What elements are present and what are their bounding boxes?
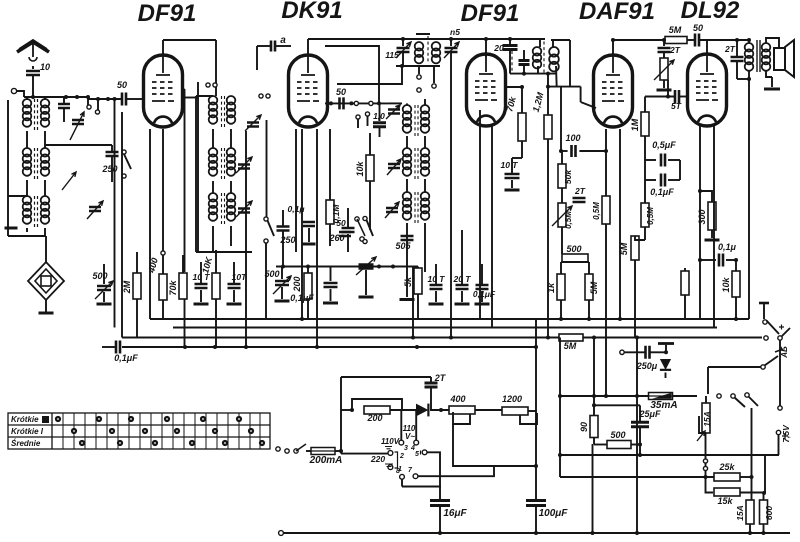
- wire 200 bottom: [307, 299, 309, 319]
- ground 0,1u: [303, 243, 316, 246]
- trimmer capacitor osc3: [238, 209, 250, 213]
- trimmer arrow pair2: [62, 172, 76, 190]
- label marker: [42, 416, 49, 423]
- arrow pot 0,5M: [552, 206, 572, 226]
- wire L4-varcap: [45, 144, 112, 146]
- wire L6 bottom: [44, 228, 46, 236]
- wire to C50: [88, 98, 121, 100]
- junction 0,1u V5: [698, 258, 702, 262]
- svg-text:2M: 2M: [122, 280, 132, 294]
- band dot row1: [236, 416, 242, 422]
- wire 2M bottom: [136, 299, 138, 338]
- resistor 1200: [502, 407, 528, 415]
- switch lever S1c: [367, 220, 374, 236]
- contact riser b: [703, 466, 707, 470]
- terminal bottom bus: [279, 531, 284, 536]
- wire 0,1M down: [329, 224, 331, 246]
- ground IF coil: [400, 298, 415, 301]
- wire a right: [276, 45, 291, 47]
- wire down2: [87, 97, 89, 105]
- contact 2: [417, 88, 421, 92]
- wire riser mid: [705, 463, 707, 466]
- svg-text:0,5M: 0,5M: [592, 202, 601, 220]
- wire capdet stem: [523, 50, 525, 60]
- svg-text:10 T: 10 T: [500, 160, 518, 170]
- ground 10T: [194, 303, 209, 306]
- resistor 15A: [702, 403, 710, 433]
- wire IF join l: [406, 136, 408, 148]
- junction left drop: [113, 97, 117, 101]
- band dot row3: [117, 440, 123, 446]
- wire L5 bottom: [26, 228, 28, 232]
- coil det secondary: [549, 47, 559, 57]
- wire 25k out: [740, 476, 752, 478]
- wire V1 lead down b: [184, 89, 186, 272]
- capacitor 5T coupling: [675, 90, 679, 103]
- potentiometer volume 0,5M: [660, 58, 668, 80]
- fuse fill: [652, 393, 672, 399]
- coil L3 primary: [23, 148, 32, 157]
- wire 10K top: [215, 250, 217, 273]
- wire det coil2 stem: [552, 40, 554, 47]
- wire to 100uF: [535, 411, 537, 499]
- wire sel4 up: [415, 410, 417, 440]
- wire 250u left: [624, 351, 645, 353]
- wire cap top: [63, 97, 65, 104]
- core IF1 b: [417, 105, 419, 136]
- resistor misc af: [681, 271, 689, 295]
- wire 2Tout stem: [736, 40, 738, 56]
- svg-text:505: 505: [395, 241, 411, 251]
- svg-text:3: 3: [404, 445, 408, 452]
- svg-text:90: 90: [579, 422, 589, 432]
- junction 5Maf bus: [587, 317, 591, 321]
- band dot row3: [79, 440, 85, 446]
- wire osc right join: [230, 129, 232, 148]
- wire L1 bottom: [26, 131, 28, 148]
- svg-text:0,1μF: 0,1μF: [114, 353, 138, 363]
- junction rail a: [64, 95, 68, 99]
- wire 10k down: [369, 181, 371, 230]
- switch lever 4,5V: [765, 356, 779, 366]
- wire V5 lead down: [699, 124, 701, 319]
- diode rectifier: [416, 404, 428, 417]
- wire V5 top lead: [706, 40, 708, 54]
- capacitor 0,1uF agc: [116, 341, 120, 354]
- wire 1k down: [560, 300, 562, 319]
- capacitor 16uF: [430, 501, 450, 506]
- contact 4,5V: [761, 365, 765, 369]
- capacitor 10T det: [505, 174, 520, 178]
- coil IF pair3 left: [403, 192, 412, 201]
- resistor 1M: [641, 112, 649, 136]
- contact input a: [87, 105, 91, 109]
- band dot row2: [109, 428, 115, 434]
- variable capacitor 500 padder: [97, 286, 111, 290]
- switch lever bat a: [735, 398, 746, 408]
- selector contact 1: [388, 465, 393, 470]
- wire n5 stem: [450, 39, 452, 46]
- wire 300 down: [711, 230, 713, 238]
- wire 1k top: [560, 262, 562, 274]
- capacitor 250 bandswitch: [277, 227, 290, 231]
- capacitor 1,0: [373, 123, 386, 127]
- diode shunt: [660, 359, 671, 370]
- wire osc bottom left: [212, 226, 214, 252]
- junction bus end: [534, 345, 538, 349]
- wire 5Magc down: [634, 260, 636, 338]
- bracket selector: [395, 452, 398, 468]
- resistor 10k out: [732, 271, 740, 297]
- wire det loop right: [569, 40, 571, 87]
- junction 200 left: [350, 408, 354, 412]
- wire 500osc down: [281, 287, 283, 299]
- wire to fuse: [306, 450, 311, 452]
- wire 10T IF down: [435, 291, 437, 302]
- wire bottom bus: [284, 532, 790, 534]
- wire det coil bottom: [537, 66, 539, 74]
- wire det coil2 down: [555, 66, 558, 87]
- wire under 500: [561, 261, 589, 263]
- wire to IF1: [389, 102, 402, 104]
- junction diode out: [439, 408, 443, 412]
- wire 250u right: [650, 351, 666, 353]
- band dot row1: [55, 416, 61, 422]
- wire rail det: [551, 39, 570, 41]
- wire V4 lead down lower: [605, 224, 607, 396]
- core osc2 line2: [224, 148, 226, 181]
- wire det out to V4: [548, 86, 581, 88]
- wire 70k bottom: [184, 299, 186, 347]
- wire 25uF top rail: [594, 404, 640, 406]
- band dot row3: [259, 440, 265, 446]
- junction bus: [183, 345, 187, 349]
- wire diode feed: [560, 87, 562, 151]
- switch contact 250a: [264, 217, 268, 221]
- coil IF pair3 right: [421, 192, 430, 201]
- svg-text:15k: 15k: [717, 496, 733, 506]
- wire down: [97, 99, 99, 110]
- junction fuse: [339, 449, 343, 453]
- wire bus y327: [173, 327, 717, 329]
- svg-text:0,5M: 0,5M: [564, 211, 573, 229]
- wire 2Tout down: [736, 62, 738, 79]
- junction rect: [377, 101, 381, 105]
- resistor 90: [590, 416, 598, 438]
- wire osc sw drop: [265, 243, 267, 319]
- wire pot top: [561, 188, 563, 203]
- wire 1M top: [644, 97, 646, 113]
- resistor 200 osc: [304, 273, 312, 299]
- wire C50 to V1 grid: [127, 98, 143, 100]
- arrow 500: [95, 281, 113, 299]
- contact 7,5V a: [778, 406, 782, 410]
- bars 110V: [385, 447, 392, 449]
- wire sw stem2: [433, 66, 435, 83]
- wire 35mA rail: [560, 395, 697, 397]
- contact osc d: [266, 94, 270, 98]
- capacitor 10T second: [228, 284, 241, 288]
- tick: [416, 33, 430, 35]
- svg-text:600: 600: [764, 506, 774, 520]
- svg-text:2: 2: [399, 453, 404, 460]
- wire antenna to C1: [32, 66, 34, 69]
- resistor 50k: [558, 164, 566, 188]
- wire chassis stem: [665, 345, 667, 351]
- wire 70k-10T: [512, 157, 522, 159]
- wire 15k feed: [706, 477, 714, 493]
- wire vol down: [663, 80, 665, 88]
- wire top rail A: [308, 38, 545, 40]
- wire tuning down: [365, 270, 367, 295]
- wire 1200 out: [528, 410, 536, 412]
- wire 0,5Maf down: [644, 227, 646, 240]
- coil osc pair1 left: [209, 96, 218, 105]
- selector contact 2: [388, 451, 393, 456]
- capacitor 2T ps: [425, 383, 438, 387]
- svg-text:2T: 2T: [574, 186, 586, 196]
- core IF3 b: [417, 192, 419, 223]
- band dot row3: [189, 440, 195, 446]
- svg-text:0,5M: 0,5M: [646, 207, 655, 225]
- core L1/L2: [34, 99, 36, 132]
- svg-text:400: 400: [449, 394, 465, 404]
- svg-text:5T: 5T: [671, 101, 682, 111]
- wire 1,2M top: [547, 74, 549, 115]
- junction 115: [401, 37, 405, 41]
- wire 2M top: [136, 252, 138, 273]
- band dot row3: [152, 440, 158, 446]
- capacitor 0,1uF det: [476, 285, 489, 289]
- resistor 5M af: [585, 274, 593, 300]
- svg-text:25μF: 25μF: [639, 409, 661, 419]
- junction loop: [400, 64, 404, 68]
- capacitor 0,5uF: [661, 154, 665, 167]
- core IF2: [414, 148, 416, 179]
- trimmer arrow n5: [444, 42, 459, 58]
- capacitor 0,1uF af: [661, 174, 665, 187]
- resistor 400: [159, 274, 167, 300]
- wire osc top left: [196, 95, 213, 97]
- wire 0,5uF right: [668, 159, 680, 161]
- wire det coil stem: [539, 40, 541, 47]
- wire 15A bracket: [699, 416, 706, 433]
- coil L1 primary: [23, 99, 32, 108]
- wire V1 lead down: [149, 129, 151, 319]
- selector contact 4: [414, 440, 419, 445]
- wire a left: [257, 45, 270, 47]
- trimmer capacitor IF1: [388, 110, 400, 114]
- wire 70k det down: [521, 141, 523, 158]
- ground loop: [39, 312, 54, 315]
- junction 0,1u 10k: [734, 258, 738, 262]
- ground 500 osc: [275, 300, 290, 303]
- wire V2 lead down b: [295, 129, 297, 252]
- wire bus AVC y337 left: [122, 337, 560, 339]
- junction 300 V5: [698, 189, 702, 193]
- junction riser 25k: [704, 475, 708, 479]
- wire left vertical: [7, 100, 9, 232]
- junction V4 rail: [604, 394, 608, 398]
- resistor 500 af: [562, 254, 588, 262]
- contact bat c: [745, 393, 749, 397]
- wire 10k top: [369, 133, 371, 155]
- wire 10Tdet down: [511, 180, 513, 188]
- wire varcap top: [111, 145, 113, 151]
- wire sw stem: [418, 66, 420, 74]
- coil ant bandswitch 1: [415, 42, 424, 51]
- switch lever B+: [767, 321, 780, 335]
- resistor 5M diode: [665, 37, 687, 44]
- junction 25uF bus: [638, 453, 642, 457]
- wire bus B+ y319: [150, 318, 749, 320]
- tube V5 DL92: [688, 54, 727, 126]
- wire bat b riser: [751, 408, 753, 477]
- wire 500 out: [631, 444, 640, 446]
- wire V1 top lead: [162, 40, 164, 55]
- wire 20T top: [461, 230, 463, 284]
- resistor 15k: [714, 488, 740, 496]
- resistor 10k IF: [366, 155, 374, 181]
- svg-text:n5: n5: [450, 27, 460, 37]
- junction bus b: [213, 345, 217, 349]
- coil osc pair1 right: [227, 96, 236, 105]
- coil output transformer primary: [745, 43, 754, 52]
- wire 0,1uFosc down: [330, 289, 332, 301]
- wire osc right join2: [230, 181, 232, 193]
- svg-text:50: 50: [336, 87, 346, 97]
- tube V4 DAF91: [594, 55, 633, 127]
- wire B+ drop: [748, 79, 750, 319]
- wire osc trimmer rail: [266, 120, 268, 217]
- wire osc bottom right: [230, 226, 232, 246]
- trimmer capacitor IF2: [388, 164, 400, 168]
- capacitor 505: [401, 236, 414, 240]
- junction 250u: [664, 350, 668, 354]
- wire V4 lead down b: [619, 129, 621, 319]
- wire right caps: [679, 160, 681, 180]
- contact sw4: [365, 112, 369, 116]
- wire n5 down: [450, 53, 452, 338]
- wire bus y337 right: [583, 337, 762, 339]
- wire 250b down: [282, 231, 284, 267]
- wire L2 top: [44, 97, 46, 100]
- bars 220: [385, 464, 393, 467]
- svg-text:АБ: АБ: [780, 346, 789, 359]
- arrow 15A wiper: [697, 431, 705, 441]
- wire selector to 16uF: [427, 452, 440, 466]
- junction rail a: [377, 265, 381, 269]
- svg-text:500: 500: [264, 269, 279, 279]
- wire minus rail: [636, 338, 638, 534]
- wire osc left join2: [212, 181, 214, 193]
- trimmer capacitor IF3: [386, 208, 398, 212]
- svg-text:Średnie: Średnie: [11, 439, 41, 448]
- coil osc pair3 left: [209, 193, 218, 202]
- wire V3 lead down b: [491, 124, 493, 328]
- wire V4 top rail: [613, 39, 665, 41]
- wire 1M down: [644, 136, 646, 160]
- wire V4 lead down: [605, 129, 607, 196]
- capacitor 25uF: [631, 422, 649, 427]
- junction rail 250: [281, 265, 285, 269]
- capacitor 20T: [456, 285, 469, 289]
- wire 0,1uF right: [668, 179, 680, 181]
- wire to 200: [341, 409, 352, 411]
- wire 16uF down: [439, 506, 441, 533]
- arrow volume pot: [654, 60, 674, 80]
- switch contact c1: [363, 216, 367, 220]
- wire V2 plate out: [325, 102, 389, 104]
- band dot row2: [174, 428, 180, 434]
- svg-text:DK91: DK91: [281, 0, 342, 24]
- junction rail 200: [306, 265, 310, 269]
- wire L4 bottom: [44, 180, 46, 196]
- wire 20T down: [461, 291, 463, 302]
- svg-text:300: 300: [697, 209, 707, 224]
- switch lever AB: [782, 328, 791, 337]
- junction minus bottom: [635, 531, 639, 535]
- contact riser a: [703, 459, 707, 463]
- trimmer IF2 arrow: [387, 159, 401, 175]
- band dot row2: [142, 428, 148, 434]
- svg-text:0,5μF: 0,5μF: [652, 140, 676, 150]
- resistor 25k: [714, 473, 740, 481]
- svg-text:2T: 2T: [669, 45, 681, 55]
- potentiometer 0,5M: [558, 203, 566, 227]
- plus 7,5V: [782, 433, 788, 439]
- svg-text:15A: 15A: [702, 411, 712, 427]
- junction 25k bat: [750, 475, 754, 479]
- resistor 300: [708, 202, 716, 230]
- switch lever 250 osc: [268, 221, 275, 237]
- tick 5: [420, 451, 422, 455]
- capacitor C1 antenna series: [26, 71, 40, 75]
- switch contact b: [360, 237, 364, 241]
- terminal mains a: [285, 449, 289, 453]
- wire 20 down: [509, 50, 511, 74]
- junction 10k bus: [734, 317, 738, 321]
- ground volume: [657, 89, 672, 92]
- wire loop rect: [325, 46, 379, 103]
- core osc1 line2: [224, 96, 226, 129]
- core osc1: [221, 96, 223, 129]
- svg-text:10k: 10k: [721, 277, 731, 293]
- variable capacitor tuning osc: [359, 265, 374, 269]
- core dashes: [427, 36, 429, 64]
- capacitor 100uF: [526, 501, 546, 506]
- wire 70k top: [182, 255, 184, 273]
- wire cap bottom: [63, 108, 65, 122]
- ground 10T IF: [429, 303, 444, 306]
- capacitor 20: [503, 46, 518, 50]
- svg-text:8: 8: [396, 468, 400, 475]
- svg-text:7,5V: 7,5V: [781, 424, 791, 443]
- contact B+ switch: [763, 320, 767, 324]
- wire 10T down: [200, 290, 202, 302]
- junction V4b bus: [618, 317, 622, 321]
- wire selector feed: [341, 453, 388, 455]
- fuse 200mA: [311, 448, 335, 455]
- junction minus rail 35mA: [635, 394, 639, 398]
- core L5/L6 line2: [37, 196, 39, 229]
- wire IF bottom r: [424, 223, 426, 272]
- capacitor 50 series IF: [340, 97, 344, 109]
- junction avc c: [411, 336, 415, 340]
- coil osc pair3 right: [227, 193, 236, 202]
- capacitor 50 switch: [339, 232, 351, 236]
- wire 2Tps stem: [430, 377, 432, 382]
